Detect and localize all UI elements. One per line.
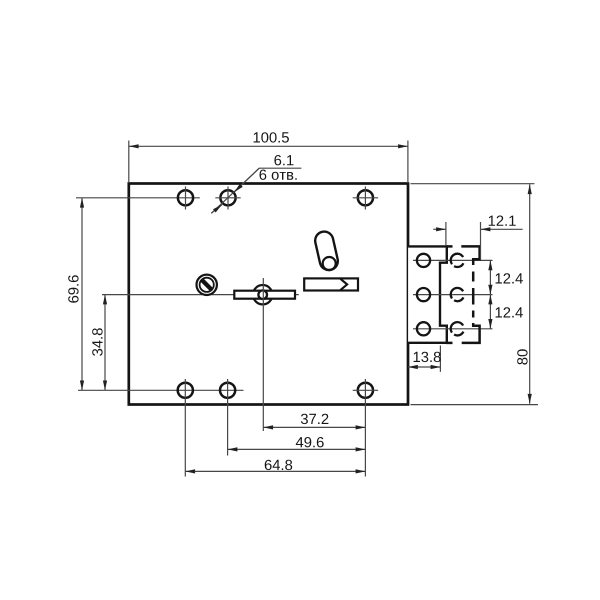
terminal row centerline R2	[413, 294, 493, 296]
hole H3 top-right	[358, 190, 373, 205]
dimension 13.8 line	[408, 366, 440, 368]
dimension 64.8 line	[185, 470, 365, 472]
dimension 37.2 line	[263, 426, 365, 428]
top hole-row centerline (left extension for 69.6)	[76, 197, 200, 199]
side plate outline	[408, 246, 447, 342]
dimension 100.5 extension right	[407, 141, 409, 184]
contact arc C3	[451, 322, 464, 335]
terminal row centerline R1	[413, 259, 493, 261]
dimension 100.5 line	[129, 145, 408, 147]
main body plate outline	[129, 184, 408, 405]
dashed connector profile	[446, 246, 480, 343]
dimension 12.4 lower line	[489, 295, 491, 329]
lever pin circle	[258, 290, 267, 299]
lever vertical centerline	[262, 278, 264, 431]
lever hub circle	[253, 285, 272, 304]
terminal row centerline R3	[413, 328, 493, 330]
bolt plate rectangle	[304, 278, 358, 290]
dimension 34.8 line	[104, 295, 106, 391]
hole H1 top-left	[178, 190, 193, 205]
dimension 80 line	[529, 184, 531, 403]
dimension 100.5 extension left	[128, 141, 130, 184]
bolt chevron	[340, 279, 347, 291]
lever bar	[234, 291, 295, 299]
dimension 80 extensions	[411, 183, 535, 185]
hole H2 top-second	[220, 190, 235, 205]
plate hole P3	[417, 322, 430, 335]
contact arc C2	[451, 288, 464, 301]
bottom hole-row centerline (left extension)	[78, 389, 244, 391]
leader 6.1 / 6 otv.	[211, 168, 301, 213]
screw head hatched circle	[197, 275, 217, 295]
key cylinder end circle	[323, 257, 336, 270]
dimension 69.6 line	[81, 198, 83, 390]
middle mechanism centerline	[102, 294, 299, 296]
dimension 12.1 arrows	[433, 228, 446, 230]
dimension 12.4 upper line	[489, 260, 491, 294]
dimension 12.1 extensions	[445, 222, 447, 246]
hole H6 bottom-right	[358, 383, 373, 398]
dimension 13.8 extension	[439, 346, 441, 372]
plate hole P1	[417, 254, 430, 267]
hole H5 bottom-second	[220, 383, 235, 398]
key cylinder capsule	[315, 232, 338, 270]
contact arc C1	[451, 254, 464, 267]
hole H4 bottom-left	[178, 383, 193, 398]
dimension 49.6 line	[228, 448, 366, 450]
plate hole P2	[417, 288, 430, 301]
